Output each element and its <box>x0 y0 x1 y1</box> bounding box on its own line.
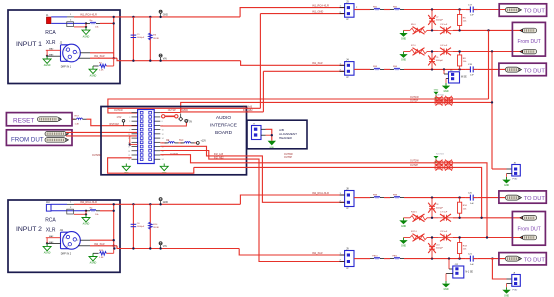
svg-text:HEADER: HEADER <box>279 136 293 140</box>
node R1b 459.6 <box>458 196 460 198</box>
svg-text:1uF: 1uF <box>470 203 474 205</box>
header pin row 5 <box>132 129 138 131</box>
capacitor C6 bank2 <box>132 204 134 248</box>
wire L2 to J9 pin2 <box>160 151 344 262</box>
svg-text:1uF: 1uF <box>470 15 474 17</box>
From DUT box 2 <box>512 212 545 246</box>
wire jumper to shield node <box>74 26 86 28</box>
ground GND alignment <box>268 141 276 149</box>
wire row3b right to From DUT2 <box>453 237 523 239</box>
connector N-1 SE <box>446 259 473 281</box>
wire OE mid <box>179 142 183 144</box>
inductor L2 on shield 2 <box>86 208 100 211</box>
svg-text:49.9K: 49.9K <box>153 38 159 40</box>
svg-text:1000pF: 1000pF <box>436 248 444 250</box>
svg-text:DIFF IN 2: DIFF IN 2 <box>61 253 72 256</box>
node row3 492 <box>491 50 493 52</box>
svg-text:1000pF: 1000pF <box>436 207 444 209</box>
wire shield to node column <box>100 22 114 24</box>
svg-text:N-1 SE: N-1 SE <box>466 272 474 274</box>
resistor R1 to AGND under XLR out <box>93 58 114 71</box>
wire XLR pin left top <box>46 49 61 51</box>
wire OE net <box>160 142 166 144</box>
INPUT 2 block border <box>8 200 120 272</box>
ground DGND left in board <box>125 164 127 167</box>
wire between beads 4 <box>384 258 390 260</box>
wire row2b mid <box>427 217 438 219</box>
ground GND under POD2 <box>502 287 510 297</box>
testpoint TP4 <box>505 67 521 72</box>
svg-text:RST/CM: RST/CM <box>110 123 119 126</box>
RCA shield wire (blue) <box>51 22 86 24</box>
wire row3 right to From DUT <box>453 51 523 53</box>
svg-text:AGND: AGND <box>44 64 51 67</box>
node row3b 432 <box>431 236 433 238</box>
resistor R10 DNP on bus2 <box>433 99 453 105</box>
wire between beads <box>384 9 390 11</box>
wire RCA2 pin to jumper (blue) <box>51 203 67 205</box>
wire bus P2 <box>181 102 492 112</box>
svg-text:From DUT: From DUT <box>518 39 541 45</box>
svg-text:GND: GND <box>401 60 406 62</box>
node row2 459.6 <box>458 29 460 31</box>
wire between beads 2 <box>384 68 390 70</box>
testpoint TP1 <box>505 7 521 12</box>
wire RESET out <box>72 118 76 120</box>
wire to cap C17 <box>404 9 466 11</box>
wire XLR2 pin left top <box>46 237 61 239</box>
node XLR left ground junction <box>46 55 48 57</box>
ground AGND at XLR2 left <box>43 243 51 254</box>
connector POD1 <box>507 162 521 180</box>
node board 144.6 <box>129 143 131 145</box>
ferrite FB11 <box>390 255 404 258</box>
header pin row 9 <box>132 146 138 148</box>
node R1 459.6 <box>458 8 460 10</box>
resistor R9 DNP on bus <box>433 96 453 102</box>
wire IN2 bottom step to J9 <box>239 249 344 256</box>
TO DUT box 2 <box>499 63 546 75</box>
connector J8 <box>340 187 354 210</box>
svg-text:14: 14 <box>162 138 164 140</box>
node row2 488.5 <box>487 29 489 31</box>
wire IN1 top step to J3 <box>240 8 345 17</box>
connector M SE <box>444 69 467 83</box>
testpoint FD1 <box>45 131 68 136</box>
wire J3 out <box>354 9 370 11</box>
svg-text:1000pF: 1000pF <box>436 20 444 22</box>
node R1b 432 <box>431 196 433 198</box>
RCA2 shield wire (blue) <box>51 210 86 212</box>
pin tick 1 <box>67 16 74 18</box>
svg-text:GND: GND <box>163 202 168 204</box>
svg-text:GND: GND <box>443 91 448 93</box>
testpoint FD2 <box>45 138 68 143</box>
wire J4 out <box>354 68 370 70</box>
pin tick 1 input2 <box>67 203 74 205</box>
svg-text:GND: GND <box>401 226 406 228</box>
node column2 x=113.7 <box>113 204 115 246</box>
svg-text:M SE: M SE <box>461 77 467 79</box>
svg-text:RCA: RCA <box>45 30 56 36</box>
svg-text:GND: GND <box>401 246 406 248</box>
node R4b 459.6 <box>458 257 460 259</box>
XLR2 pin stub right top <box>80 239 90 241</box>
svg-text:5: 5 <box>129 121 130 123</box>
node row2b 459.6 <box>458 217 460 219</box>
node bottom wire bank <box>132 60 134 62</box>
testpoint TP2 <box>520 28 537 33</box>
svg-text:R15 0: R15 0 <box>411 211 418 213</box>
ground AGND under resistor R13 <box>89 253 97 264</box>
wire IN2 top step to J8 <box>240 195 344 204</box>
wire fromdut1 <box>66 131 138 133</box>
wire 5V corner <box>160 122 186 126</box>
svg-text:FROM DUT: FROM DUT <box>11 136 44 143</box>
svg-text:IN2_XLR: IN2_XLR <box>94 242 105 246</box>
XLR pin stub right bottom <box>78 57 90 59</box>
svg-text:5V: 5V <box>189 122 192 124</box>
header pin row 7 <box>132 137 138 139</box>
svg-text:OUT1W: OUT1W <box>410 96 419 99</box>
TO DUT box 4 <box>499 253 546 265</box>
XLR connector J2 symbol <box>46 40 81 68</box>
header pin row 4 <box>132 124 138 126</box>
svg-text:GND: GND <box>443 289 448 291</box>
RCA connector J10 <box>45 202 56 223</box>
capacitor C19 series <box>466 64 478 76</box>
resistor R17 DNP row3b <box>410 231 427 241</box>
resistor R6 vertical <box>458 10 468 31</box>
svg-text:11: 11 <box>128 134 130 136</box>
wire L1 to J8 pin2 <box>160 146 344 202</box>
svg-text:IN2_XLR: IN2_XLR <box>312 251 323 255</box>
resistor R2 bank <box>149 17 151 61</box>
ferrite FB5 on reset <box>73 118 87 119</box>
svg-text:1uF: 1uF <box>470 264 474 266</box>
wire step down to 248.5 <box>117 246 239 249</box>
svg-text:C4 1uF: C4 1uF <box>440 45 448 47</box>
capacitor C4 DNP row3 <box>438 45 453 55</box>
svg-text:TO DUT: TO DUT <box>524 68 546 74</box>
node R4 432 <box>431 68 433 70</box>
resistor R5 DNP row2 <box>410 24 427 34</box>
capacitor C2 DNP vertical <box>428 10 443 31</box>
jumper W2 body <box>67 209 74 214</box>
svg-text:1: 1 <box>65 50 66 52</box>
ferrite FB10 <box>370 255 384 258</box>
node row2b 481.6 <box>480 217 482 219</box>
svg-text:GND: GND <box>434 90 439 92</box>
resistor R11 DNP on bus3 <box>433 160 453 166</box>
wire RCA_GND to J3 pin2 <box>260 13 344 15</box>
power flag GND on top wire <box>159 16 161 18</box>
node shield junction <box>85 22 87 24</box>
XLR connector J11 symbol <box>46 228 81 256</box>
svg-text:3: 3 <box>67 246 68 248</box>
svg-text:RST: RST <box>75 115 80 117</box>
svg-text:AGND: AGND <box>83 35 90 38</box>
wire board top net (GND) <box>108 107 261 109</box>
svg-text:VIN: VIN <box>163 58 167 60</box>
testpoint TP7 <box>520 235 537 240</box>
svg-text:TLN: TLN <box>179 140 184 142</box>
resistor R16 vertical b <box>458 198 468 218</box>
svg-text:10: 10 <box>162 130 164 132</box>
node bank2 top <box>132 203 134 205</box>
capacitor C20 series <box>466 192 478 204</box>
svg-text:R7 0: R7 0 <box>411 45 416 47</box>
svg-text:TO DUT: TO DUT <box>524 9 546 15</box>
ferrite FB3 <box>370 66 384 69</box>
jumper W3 dumbbell <box>162 115 165 118</box>
svg-text:FB11: FB11 <box>392 255 398 257</box>
svg-text:3: 3 <box>129 117 130 119</box>
wire XLR pin left bottom (black) <box>47 55 60 57</box>
wire between beads 3 <box>384 197 390 199</box>
flag 1.5V diamond <box>180 114 182 118</box>
wire row2b right to From DUT2 <box>453 217 523 219</box>
FROM DUT box <box>6 130 72 146</box>
capacitor C21 series <box>466 253 478 265</box>
capacitor C10 DNP vertical b <box>428 238 443 259</box>
svg-text:20: 20 <box>162 151 164 153</box>
wire row3b left <box>404 237 411 239</box>
wire L4 bus to From DUT row B <box>194 167 482 217</box>
wire row2 mid <box>427 29 438 31</box>
ground GND under N-1 SE <box>442 281 450 291</box>
wire shield2 to node column <box>100 210 114 212</box>
svg-text:XLR: XLR <box>46 40 56 46</box>
svg-text:19: 19 <box>128 151 130 153</box>
wire C19 to TO DUT2 <box>478 68 506 70</box>
node bank2 bottom <box>132 247 134 249</box>
wire 5VDD corner <box>160 112 180 114</box>
svg-text:POD: POD <box>513 179 518 181</box>
ground GND under POD1 <box>502 177 510 187</box>
node R4 444 (M SE tap) <box>443 68 445 70</box>
capacitor C1 bank <box>132 17 134 61</box>
svg-text:IN2_RCA-XLR: IN2_RCA-XLR <box>312 191 329 195</box>
svg-text:INPUT 1: INPUT 1 <box>16 41 42 48</box>
wire jumper2 to shield node <box>74 213 86 215</box>
svg-text:1.4K: 1.4K <box>75 123 80 125</box>
node row3 432 <box>431 50 433 52</box>
power flag VIN on IN2 bottom wire <box>159 247 161 249</box>
svg-text:IN1_XLR: IN1_XLR <box>312 61 323 65</box>
ground GND under M SE <box>442 83 450 93</box>
wire pod feed <box>492 168 507 170</box>
testpoint TP6 <box>520 216 537 221</box>
ferrite FB1 <box>370 6 384 9</box>
svg-text:24: 24 <box>162 159 164 161</box>
svg-text:AUDIO: AUDIO <box>216 115 231 121</box>
testpoint TP8 <box>505 256 521 261</box>
svg-text:OUT2W: OUT2W <box>410 160 419 163</box>
svg-text:IN1_A-B: IN1_A-B <box>243 106 252 109</box>
svg-text:AGND: AGND <box>90 74 97 77</box>
wire J9 out <box>354 258 370 260</box>
svg-text:AGND: AGND <box>90 262 97 265</box>
svg-text:IN1_RCA-XLR: IN1_RCA-XLR <box>80 12 97 16</box>
wire U loop bottom <box>108 158 194 173</box>
wire vertical J4pin2 to board <box>262 71 264 112</box>
svg-text:+12V: +12V <box>201 141 207 143</box>
connector J4 <box>340 58 354 78</box>
svg-text:GND: GND <box>504 185 509 187</box>
header pin row 8 <box>132 141 138 143</box>
wire IN2 top net <box>74 203 240 205</box>
svg-text:C7 1uF: C7 1uF <box>440 211 448 213</box>
header pin row 11 <box>132 154 138 156</box>
capacitor C17 series <box>466 4 478 16</box>
header pin row 10 <box>132 150 138 152</box>
wire C17 to TO DUT <box>478 9 506 11</box>
svg-text:R19 R20: R19 R20 <box>436 94 445 96</box>
svg-text:BOARD: BOARD <box>215 130 233 136</box>
ferrite FB6 <box>165 142 179 143</box>
resistor R7 DNP row3 <box>410 45 427 55</box>
svg-text:21: 21 <box>128 155 130 157</box>
svg-text:GND: GND <box>270 147 275 149</box>
wire to cap C19 <box>404 68 466 70</box>
TO DUT box 3 <box>499 191 546 203</box>
svg-text:R17 0: R17 0 <box>411 231 418 233</box>
svg-text:1: 1 <box>129 113 130 115</box>
resistor R15 DNP row2b <box>410 211 427 221</box>
svg-text:XLR: XLR <box>46 228 56 234</box>
capacitor C8 DNP vertical b <box>428 198 443 218</box>
svg-text:1: 1 <box>65 237 66 239</box>
ground AGND under resistor R1 <box>89 66 97 77</box>
wire C21 to TO DUT4 <box>478 258 506 260</box>
svg-text:VIN: VIN <box>163 246 167 248</box>
svg-text:IN1_RCA-XLR: IN1_RCA-XLR <box>312 3 329 7</box>
node R4 459.6 <box>458 68 460 70</box>
jumper W1 body <box>67 22 74 27</box>
svg-text:AGND: AGND <box>44 252 51 255</box>
header U1 <box>138 110 155 164</box>
svg-text:1000pF: 1000pF <box>436 60 444 62</box>
INPUT 1 block border <box>8 10 120 84</box>
ground DGND right in board <box>163 164 165 167</box>
wire vertical J3pin2 to board <box>259 14 261 109</box>
ground GND row2b <box>399 218 407 228</box>
wire fromdut2 <box>66 135 138 137</box>
A/B ALIGNMENT HEADER box <box>247 120 307 149</box>
capacitor C7 DNP row2b <box>438 211 453 221</box>
node row3b 459.6 <box>458 236 460 238</box>
ground AGND at RCA2 shield <box>82 214 90 225</box>
resistor R13 to AGND under XLR2 out <box>93 246 114 259</box>
wire IN1 bottom net <box>90 57 117 59</box>
resistor R8 vertical <box>458 52 468 70</box>
header pin row 2 <box>132 116 138 118</box>
resistor R14 bank2 <box>149 204 151 248</box>
node row3b 487 <box>486 236 488 238</box>
node R4b 432 <box>431 257 433 259</box>
capacitor C5 DNP vertical <box>428 52 443 70</box>
wire row3 left <box>404 51 411 53</box>
svg-text:RCA: RCA <box>45 217 56 223</box>
svg-text:OUT2P: OUT2P <box>410 164 418 167</box>
svg-text:1.4K: 1.4K <box>99 257 104 259</box>
From DUT box 1 <box>512 22 545 56</box>
wire board net2 from J4 shield <box>181 111 264 113</box>
svg-text:DIFF IN 1: DIFF IN 1 <box>61 65 72 68</box>
svg-text:1000pF: 1000pF <box>137 37 145 39</box>
wire step down to 60.7 <box>117 58 241 61</box>
wire row3 mid <box>427 51 438 53</box>
wire OE end <box>195 142 197 144</box>
svg-text:1000pF: 1000pF <box>137 226 145 228</box>
wire bus P1 <box>108 99 489 113</box>
wire alignment jumper <box>266 129 272 141</box>
wire row2b left <box>404 217 411 219</box>
node shield junction 2 <box>85 210 87 212</box>
capacitor C9 DNP row3b <box>438 231 453 241</box>
wire XLR2 out to node column <box>90 239 114 241</box>
wire XLR2 pin left bottom (black) <box>47 243 60 245</box>
resistor R12 DNP on bus4 <box>433 164 453 170</box>
power flag VIN on IN2 top wire <box>159 203 161 205</box>
svg-text:12: 12 <box>162 134 164 136</box>
svg-text:OUT1P: OUT1P <box>168 109 176 112</box>
wire vertical 488.5 down <box>488 30 490 99</box>
svg-text:From DUT: From DUT <box>518 227 541 233</box>
TO DUT box 1 <box>499 4 546 16</box>
svg-text:RESET: RESET <box>13 117 34 124</box>
svg-text:OUT3P: OUT3P <box>284 156 292 159</box>
header pin row 12 <box>132 158 138 160</box>
svg-text:2: 2 <box>77 240 78 242</box>
svg-text:IN2_AB2: IN2_AB2 <box>214 156 224 159</box>
header pin row 6 <box>132 133 138 135</box>
ferrite FB2 <box>390 6 404 9</box>
ground GND row3b <box>399 238 407 248</box>
svg-text:TO DUT: TO DUT <box>524 196 546 202</box>
node XLR2 left ground junction <box>46 242 48 244</box>
svg-text:GND: GND <box>401 39 406 41</box>
connector J9 <box>340 247 354 270</box>
svg-text:2: 2 <box>77 52 78 54</box>
svg-text:9: 9 <box>129 130 130 132</box>
svg-text:AGND: AGND <box>83 223 90 226</box>
svg-text:17: 17 <box>128 147 130 149</box>
node row3 459.6 <box>458 50 460 52</box>
svg-text:IN1_GND: IN1_GND <box>312 10 323 14</box>
wire row2 right to From DUT <box>453 29 523 31</box>
wire fromdut vertical tap <box>129 136 131 145</box>
svg-text:49.9K: 49.9K <box>153 227 159 229</box>
node R4b 492.4 <box>491 257 493 259</box>
svg-text:OUT1W: OUT1W <box>114 109 123 112</box>
wire to cap C21 <box>404 258 466 260</box>
svg-text:INPUT 2: INPUT 2 <box>16 226 42 233</box>
svg-text:R21 R22: R21 R22 <box>436 154 445 156</box>
wire J8 out <box>354 197 370 199</box>
connector J7 alignment <box>252 123 266 139</box>
ferrite FB9 <box>390 194 404 197</box>
XLR pin stub right top <box>80 52 90 54</box>
svg-text:C9 1uF: C9 1uF <box>440 231 448 233</box>
ground AGND at XLR left <box>43 56 51 67</box>
svg-text:OE: OE <box>166 140 170 142</box>
svg-text:22: 22 <box>162 155 164 157</box>
node bus-pod <box>491 101 493 103</box>
node column x=113.7 <box>113 17 115 58</box>
connector POD2 <box>507 271 521 291</box>
